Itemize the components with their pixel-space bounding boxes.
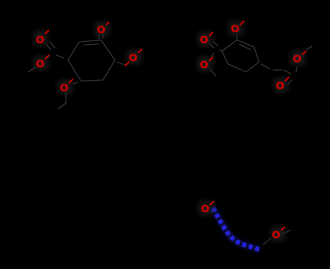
wire ring: [68, 40, 115, 81]
svg-text:O: O: [36, 58, 44, 70]
wire ring inner double: [239, 44, 251, 50]
wire esterC-ring: [219, 50, 222, 51]
node O ester ether right: [198, 57, 213, 71]
node O-prime right of left-ring: [125, 49, 142, 66]
wire esterC=O line1: [46, 44, 51, 50]
wire esterC=O line1: [209, 43, 214, 48]
wire ring: [222, 40, 259, 72]
wire blue-end to O: [263, 238, 271, 245]
wire ring inner double: [83, 44, 99, 45]
wire methyl stub: [58, 103, 66, 109]
node O ketone left-ring: [95, 22, 109, 36]
ring right: [222, 40, 259, 72]
node O bottom-right: [271, 227, 285, 241]
svg-text:O: O: [200, 59, 208, 71]
wire O-right: [282, 230, 291, 234]
wire esterC=O line2: [50, 42, 55, 48]
wire O3-ring: [236, 34, 238, 40]
hydrogen-bond blue dotted curve glow: [213, 208, 261, 250]
wire ring-to-esterC: [56, 55, 64, 58]
wire ester2 C-O4: [296, 67, 297, 72]
wire esterC-O: [47, 55, 50, 58]
node O ester ether left: [34, 55, 49, 70]
wire chain to ester2: [261, 64, 270, 69]
wire chain2: [273, 69, 283, 71]
wire ester2 C=O line1: [284, 77, 289, 82]
node O bottom right-ring: [274, 77, 289, 92]
svg-text:O: O: [272, 229, 280, 241]
node O ester carbonyl left: [34, 30, 49, 46]
svg-text:O: O: [200, 34, 208, 46]
wire ester2 C=O line2: [287, 80, 292, 85]
wire esterC=O line2: [213, 41, 218, 46]
svg-text:O: O: [97, 24, 105, 36]
wire O-CH3 right-ester: [210, 69, 216, 76]
wire O4-CH3: [306, 46, 312, 50]
wire esterC-O: [211, 53, 214, 57]
wire ring-to-Oprime: [117, 62, 125, 65]
node O bottom-left: [199, 201, 214, 215]
wire ring-to-Obottom: [73, 82, 78, 84]
wire O-down: [65, 92, 67, 103]
node O far right: [291, 51, 306, 65]
node O bottom left-ring: [58, 79, 73, 94]
wire ketone double line2: [102, 34, 104, 39]
node O top right-ring: [229, 21, 244, 35]
svg-text:O: O: [60, 82, 68, 94]
svg-text:O: O: [231, 23, 239, 35]
svg-text:O: O: [36, 34, 44, 46]
ring cyclohexenone left: [68, 40, 115, 81]
wire ketone double line1: [98, 34, 100, 39]
node O ester carbonyl right: [198, 32, 213, 46]
wire O-CH3: [28, 67, 36, 72]
svg-text:O: O: [129, 52, 137, 64]
svg-text:O: O: [293, 53, 301, 65]
wire chain3: [284, 70, 291, 74]
svg-text:O: O: [276, 80, 284, 92]
svg-text:O: O: [201, 203, 209, 215]
hydrogen-bond blue dotted curve: [213, 208, 261, 250]
